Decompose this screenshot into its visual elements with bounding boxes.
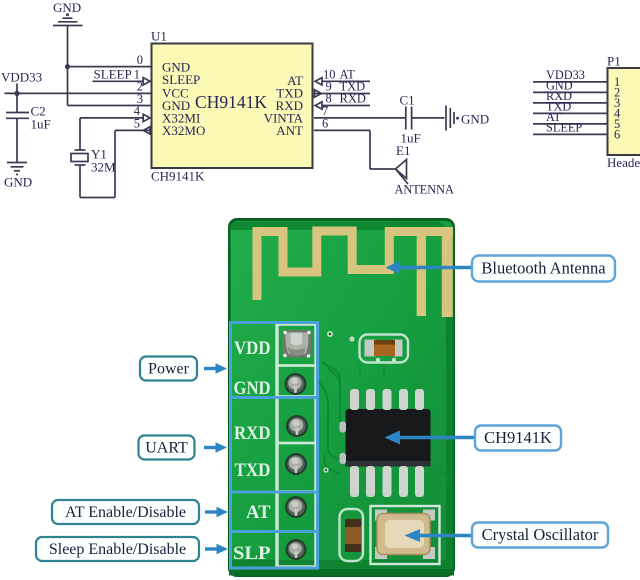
pin 5 output arrow xyxy=(143,127,150,134)
wire pin10 AT xyxy=(322,80,370,82)
wire SLEEP to pin1 xyxy=(93,80,144,82)
IC chip leads bottom xyxy=(350,466,424,497)
node junction VDD33 xyxy=(14,91,19,96)
callout arrow AT xyxy=(205,507,228,518)
PCB board xyxy=(228,218,455,577)
svg-text:SLP: SLP xyxy=(233,543,271,564)
callout box CH9141K xyxy=(475,426,561,451)
svg-text:5: 5 xyxy=(134,117,140,131)
pin 9 input arrow xyxy=(315,90,322,97)
pin 8 output arrow xyxy=(315,102,322,109)
annotation box Power group xyxy=(231,323,318,398)
svg-text:CH9141K: CH9141K xyxy=(151,169,205,184)
svg-text:1: 1 xyxy=(134,68,140,82)
antenna E1 xyxy=(395,143,455,197)
svg-text:CH9141K: CH9141K xyxy=(484,428,552,447)
crystal oscillator Y1 on PCB xyxy=(371,506,440,564)
pin 4 input arrow xyxy=(143,114,150,121)
svg-text:6: 6 xyxy=(322,117,328,131)
svg-text:AT Enable/Disable: AT Enable/Disable xyxy=(65,504,186,521)
callout box Crystal Oscillator xyxy=(472,523,608,548)
wire P1-2 GND xyxy=(533,91,608,93)
svg-text:32M: 32M xyxy=(91,160,116,175)
svg-text:SLEEP: SLEEP xyxy=(546,121,582,135)
power port VDD33 xyxy=(1,70,42,94)
svg-text:Header 6: Header 6 xyxy=(607,155,640,170)
svg-text:Sleep Enable/Disable: Sleep Enable/Disable xyxy=(49,541,186,558)
PCB copper traces texture xyxy=(318,362,448,484)
callout arrow Power xyxy=(204,363,227,374)
pin 1 input arrow xyxy=(143,78,150,85)
IC U1 CH9141K xyxy=(151,29,313,184)
svg-text:C1: C1 xyxy=(400,93,415,108)
ground (earth, below C2) xyxy=(4,163,32,190)
callout box Sleep Enable/Disable xyxy=(36,537,199,561)
pad VDD xyxy=(283,330,312,358)
svg-text:GND: GND xyxy=(461,112,489,127)
wire GND stem to pin0 row xyxy=(67,26,69,106)
ground (top power ground) xyxy=(53,0,83,26)
svg-text:VDD33: VDD33 xyxy=(1,70,42,85)
svg-text:1uF: 1uF xyxy=(31,117,51,132)
silkscreen table xyxy=(277,323,316,567)
pad SLP xyxy=(286,539,307,560)
pad GND xyxy=(285,373,307,395)
svg-text:TXD: TXD xyxy=(235,460,271,481)
annotation box UART group xyxy=(231,398,318,493)
wire pin3 GND xyxy=(68,105,152,107)
callout box Bluetooth Antenna xyxy=(472,256,615,282)
node junction pin0 xyxy=(65,64,70,69)
svg-text:GND: GND xyxy=(234,378,271,399)
vias xyxy=(323,331,396,473)
wire crystal bottom to pin5 X32MO xyxy=(80,130,150,197)
wire pin8 RXD xyxy=(322,105,370,107)
IC chip leads top xyxy=(350,389,424,410)
svg-text:Bluetooth Antenna: Bluetooth Antenna xyxy=(481,259,606,278)
svg-text:Crystal Oscillator: Crystal Oscillator xyxy=(482,525,599,544)
wire pin9 TXD xyxy=(314,93,370,95)
svg-text:X32MO: X32MO xyxy=(162,123,205,138)
header P1 xyxy=(607,54,640,171)
svg-text:RXD: RXD xyxy=(340,92,366,106)
svg-text:VDD: VDD xyxy=(234,338,271,359)
svg-text:U1: U1 xyxy=(151,29,167,44)
capacitor C2 xyxy=(6,93,51,162)
wire pin0 GND xyxy=(68,66,152,68)
svg-text:SLEEP: SLEEP xyxy=(94,67,132,82)
callout arrow Crystal Oscillator xyxy=(405,529,473,542)
svg-text:P1: P1 xyxy=(607,54,621,69)
wire P1-6 SLEEP xyxy=(533,133,608,135)
wire P1-3 RXD xyxy=(533,102,608,104)
pad RXD xyxy=(286,415,308,437)
svg-text:Power: Power xyxy=(148,361,190,378)
svg-text:0: 0 xyxy=(137,53,143,67)
bluetooth antenna trace xyxy=(257,228,453,317)
annotation box SLP group xyxy=(231,532,318,569)
callout arrow Bluetooth Antenna xyxy=(386,261,473,274)
wire P1-4 TXD xyxy=(533,112,608,114)
wire pin4 X32MI to crystal top xyxy=(80,118,143,150)
pad TXD xyxy=(285,453,307,475)
svg-text:ANTENNA: ANTENNA xyxy=(395,183,455,197)
svg-text:CH9141K: CH9141K xyxy=(195,92,267,112)
svg-text:6: 6 xyxy=(614,128,620,142)
svg-text:GND: GND xyxy=(4,175,32,190)
wire pin7 VINTA to C1 xyxy=(314,117,405,119)
callout box AT Enable/Disable xyxy=(52,500,199,524)
svg-text:ANT: ANT xyxy=(276,123,303,138)
capacitor C1 xyxy=(400,93,445,146)
svg-text:GND: GND xyxy=(53,0,81,15)
wire VDD33 to VCC pin2 xyxy=(5,92,152,94)
annotation box AT group xyxy=(231,492,318,532)
callout arrow CH9141K xyxy=(385,431,476,445)
callout box UART xyxy=(139,436,195,460)
pad AT xyxy=(285,496,307,518)
svg-text:AT: AT xyxy=(246,502,271,523)
svg-text:UART: UART xyxy=(145,440,188,457)
SMD capacitor footprint (left of crystal) xyxy=(340,509,364,561)
wire P1-1 VDD33 xyxy=(533,81,608,83)
pin 10 output arrow xyxy=(315,78,322,85)
svg-text:RXD: RXD xyxy=(234,423,271,444)
callout box Power xyxy=(140,357,197,381)
wire P1-5 AT xyxy=(533,123,608,125)
svg-text:E1: E1 xyxy=(396,143,410,158)
IC CH9141K chip body xyxy=(346,409,431,467)
ground (power ground at C1) xyxy=(446,106,489,131)
wire pin6 ANT xyxy=(314,130,396,169)
IC chip side pads xyxy=(340,422,347,465)
callout arrow UART xyxy=(204,442,227,453)
crystal Y1 xyxy=(71,147,116,175)
callout arrow Sleep xyxy=(205,544,228,555)
SMD resistor R footprint xyxy=(360,335,409,363)
